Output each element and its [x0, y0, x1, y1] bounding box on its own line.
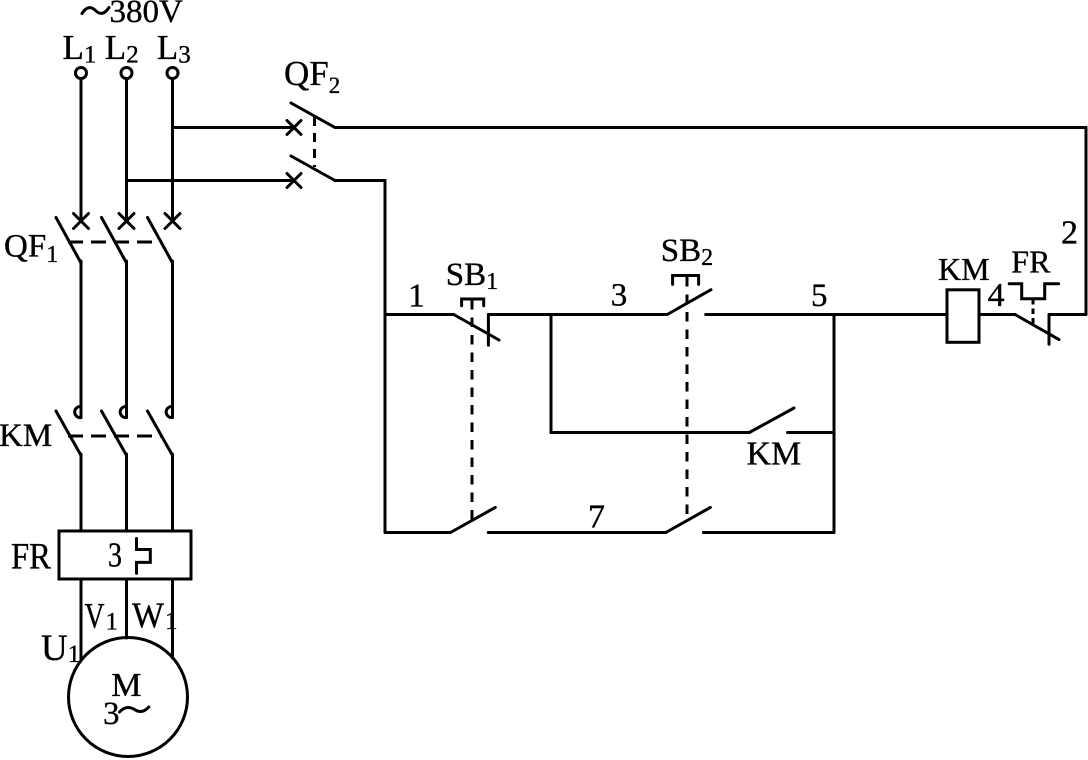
- svg-text:2: 2: [1061, 214, 1078, 251]
- svg-text:QF1: QF1: [4, 229, 58, 269]
- svg-text:3: 3: [108, 536, 122, 575]
- svg-text:FR: FR: [11, 537, 51, 578]
- svg-text:1: 1: [408, 278, 425, 315]
- svg-text:KM: KM: [938, 251, 990, 287]
- svg-text:V1: V1: [85, 596, 119, 636]
- svg-text:KM: KM: [747, 436, 802, 473]
- svg-text:3: 3: [611, 278, 628, 314]
- svg-text:KM: KM: [0, 418, 52, 454]
- svg-text:FR: FR: [1011, 244, 1051, 280]
- svg-text:4: 4: [988, 277, 1005, 314]
- svg-text:7: 7: [588, 499, 605, 536]
- svg-text:W1: W1: [132, 595, 178, 635]
- svg-text:380V: 380V: [110, 0, 184, 30]
- svg-text:SB1: SB1: [446, 257, 498, 295]
- svg-text:U1: U1: [41, 628, 80, 669]
- svg-text:3: 3: [103, 696, 120, 732]
- svg-text:L3: L3: [157, 28, 191, 69]
- svg-text:L1: L1: [63, 28, 97, 69]
- svg-text:QF2: QF2: [284, 54, 340, 98]
- svg-text:SB2: SB2: [661, 233, 713, 271]
- svg-text:L2: L2: [105, 28, 139, 69]
- svg-text:5: 5: [811, 278, 828, 314]
